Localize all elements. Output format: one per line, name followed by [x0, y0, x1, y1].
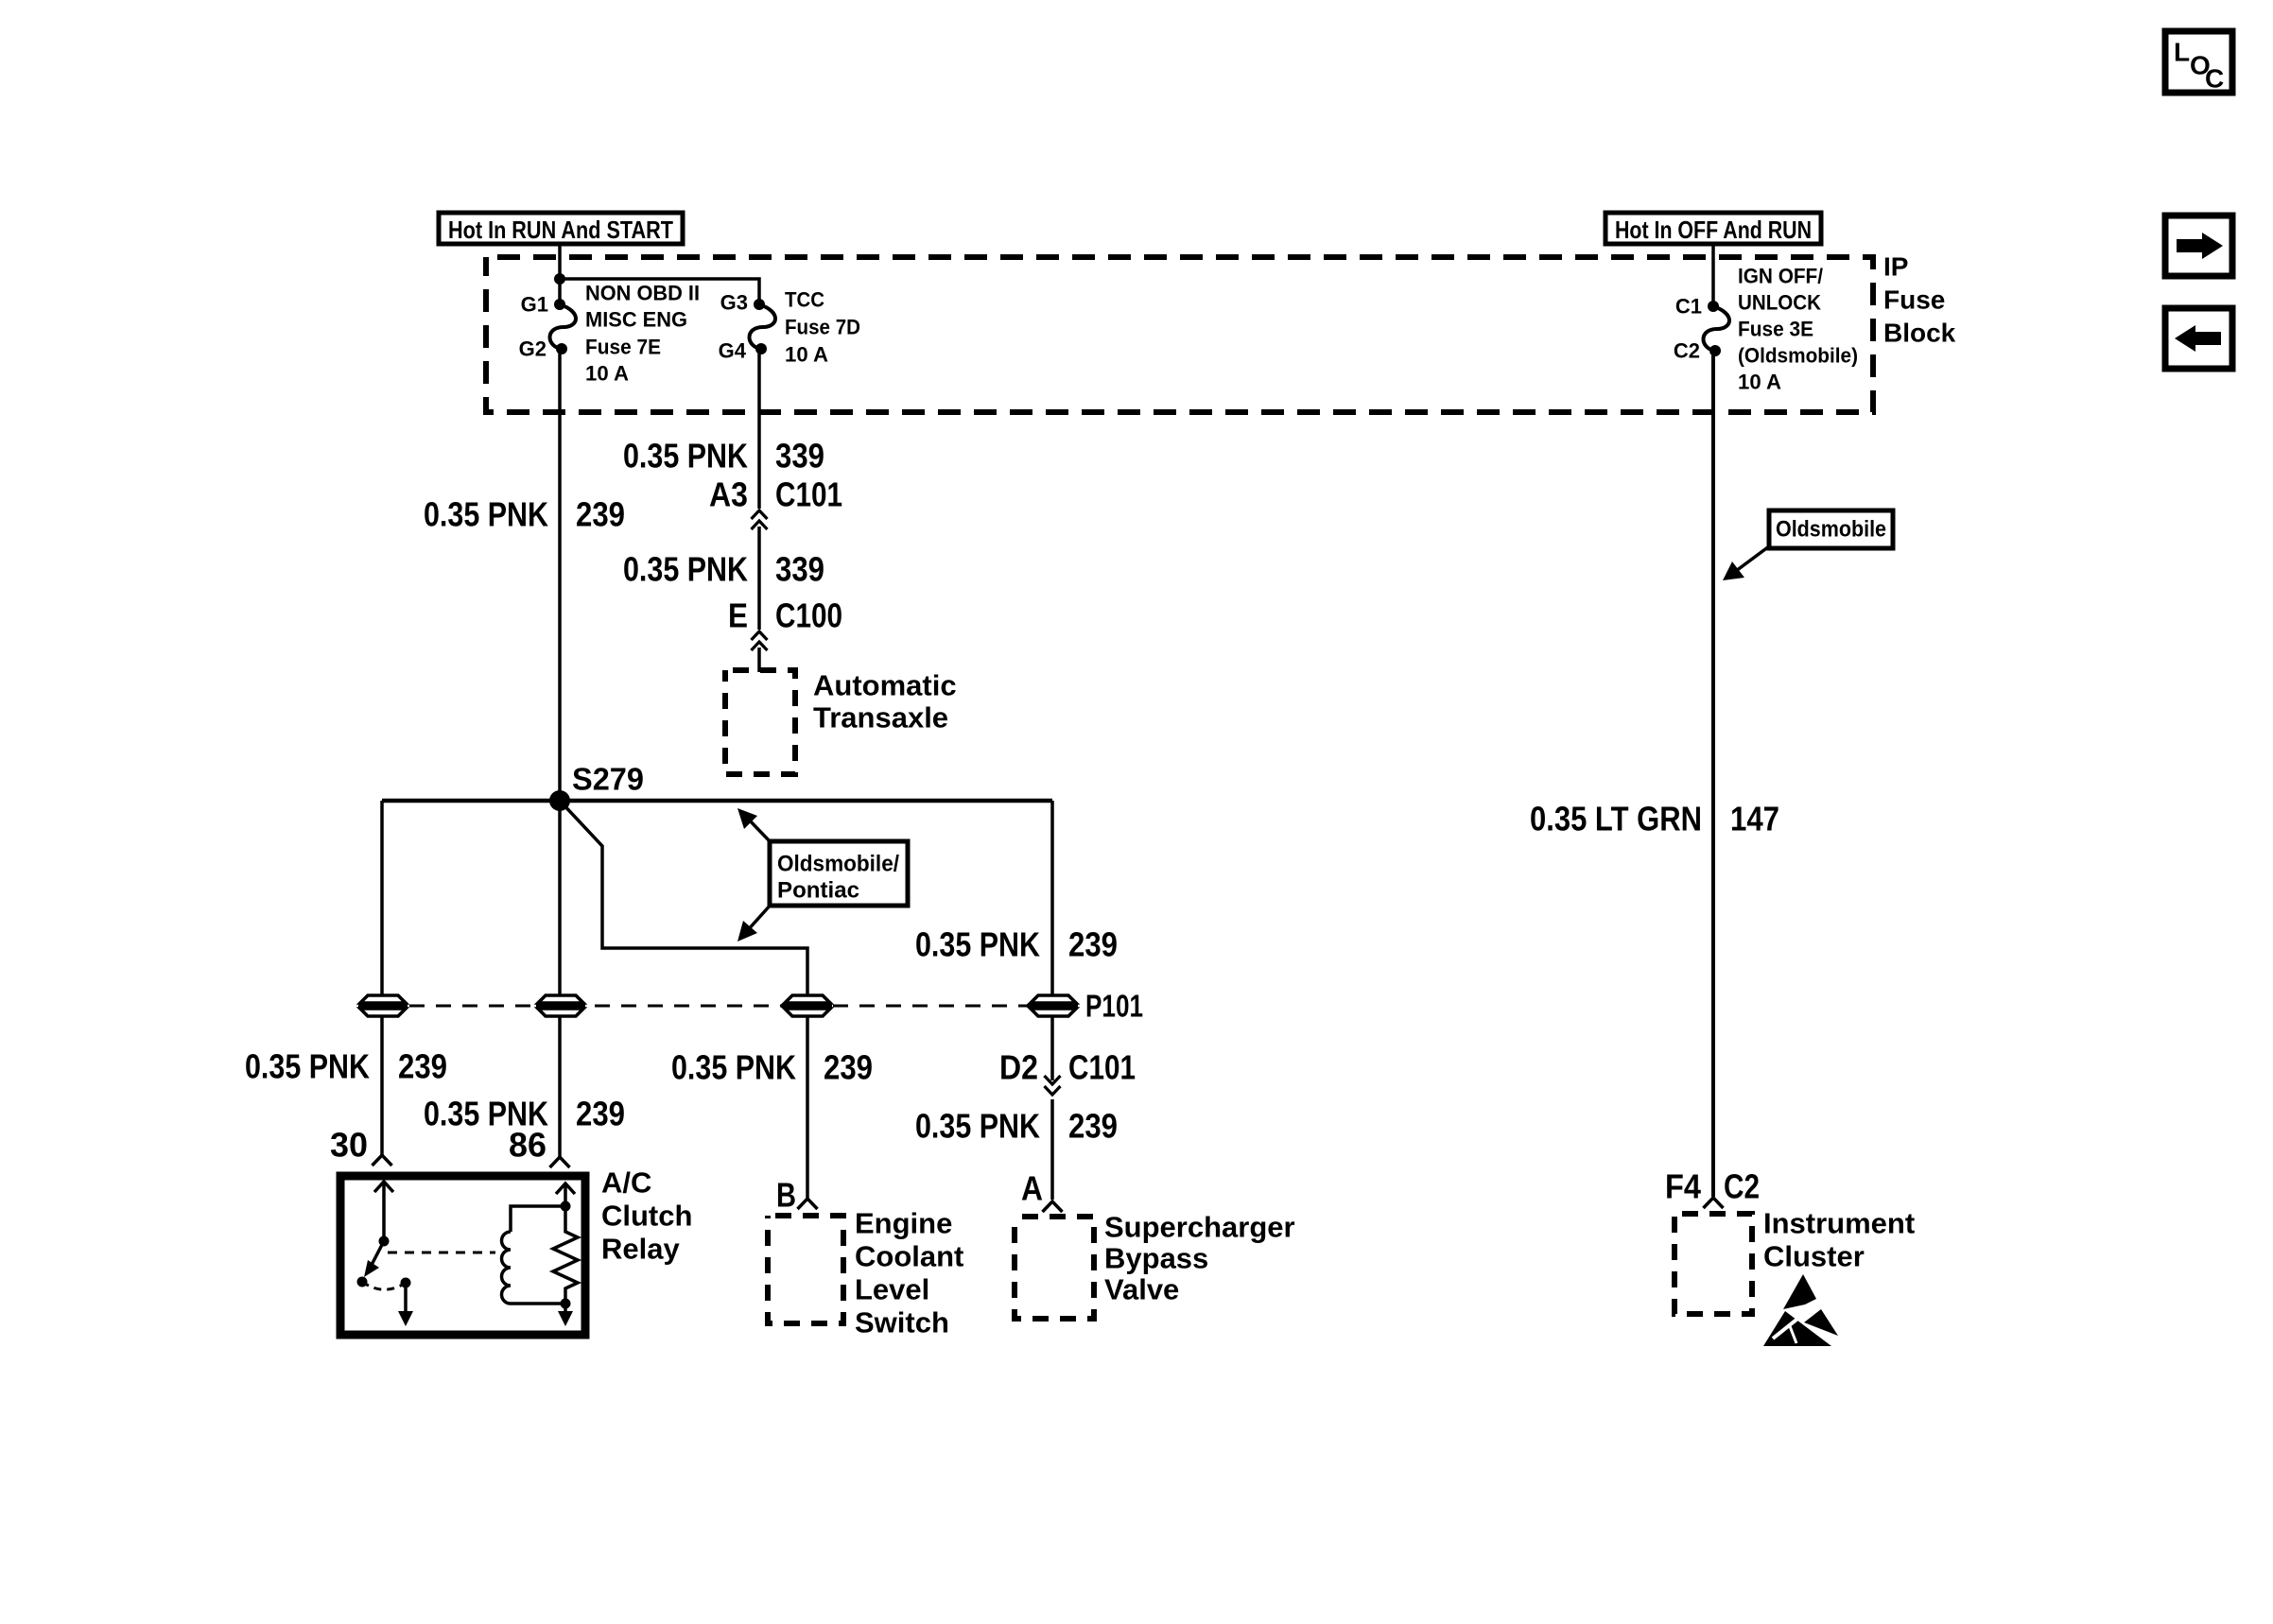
header box: Hot In RUN And START [439, 213, 683, 244]
svg-text:0.35 PNK: 0.35 PNK [915, 925, 1040, 964]
svg-text:Valve: Valve [1104, 1273, 1179, 1306]
svg-text:Fuse 3E: Fuse 3E [1738, 318, 1813, 341]
svg-text:S279: S279 [572, 762, 644, 797]
svg-text:P101: P101 [1085, 989, 1143, 1024]
splice S279 [549, 790, 570, 811]
header box: Hot In OFF And RUN [1605, 213, 1821, 244]
relay output arrow (pin 87) [404, 1283, 408, 1314]
svg-text:0.35 PNK: 0.35 PNK [623, 437, 748, 475]
wire: 0.35 PNK 239 from G2 to S279 [558, 349, 562, 801]
svg-text:Switch: Switch [855, 1306, 949, 1339]
wire: S279 horizontal bus [382, 799, 1052, 803]
svg-text:Bypass: Bypass [1104, 1242, 1208, 1275]
svg-text:30: 30 [330, 1126, 368, 1165]
nav arrow box (right) [2165, 216, 2232, 276]
fuse: NON OBD II MISC ENG Fuse 7E 10A (G1-G2) [550, 304, 577, 349]
relay dashed contact arc [362, 1282, 406, 1289]
svg-text:Clutch: Clutch [601, 1200, 692, 1233]
wire: Hot In OFF And RUN feed [1711, 244, 1715, 306]
svg-text:A/C: A/C [601, 1166, 651, 1200]
svg-text:C: C [2205, 64, 2224, 94]
svg-text:C100: C100 [775, 596, 842, 635]
svg-text:C101: C101 [1068, 1048, 1136, 1087]
svg-text:239: 239 [1068, 925, 1118, 964]
callout arrow to wire [1736, 546, 1769, 571]
svg-text:D2: D2 [999, 1048, 1038, 1087]
svg-text:C101: C101 [775, 475, 842, 514]
IP Fuse Block dashed box [486, 257, 1873, 412]
svg-text:G3: G3 [720, 291, 748, 315]
svg-text:A3: A3 [709, 475, 748, 514]
svg-text:G4: G4 [719, 339, 747, 363]
relay switch armature [372, 1241, 384, 1265]
wire: 0.35 LT GRN 147 from C2 to instrument cluster [1711, 351, 1715, 1197]
wire: 0.35 PNK 339 from C101 to C100 [757, 527, 761, 630]
svg-text:IGN OFF/: IGN OFF/ [1738, 265, 1823, 288]
terminal chevron pin 30 [373, 1155, 392, 1166]
nav arrow box (left) [2165, 308, 2232, 369]
svg-text:Transaxle: Transaxle [813, 701, 948, 734]
wire: branch to TCC fuse [560, 279, 759, 304]
junction node [554, 273, 565, 285]
wire: left drop to relay pin 30 [380, 801, 384, 1155]
svg-text:Engine: Engine [855, 1207, 952, 1240]
svg-text:239: 239 [824, 1048, 873, 1087]
svg-text:Oldsmobile/: Oldsmobile/ [777, 852, 899, 877]
svg-text:Automatic: Automatic [813, 669, 957, 702]
svg-text:Hot In OFF And RUN: Hot In OFF And RUN [1615, 216, 1812, 244]
svg-text:TCC: TCC [785, 288, 824, 312]
ESD sensitivity symbol [1763, 1274, 1838, 1346]
svg-text:339: 339 [775, 437, 824, 475]
svg-text:Pontiac: Pontiac [777, 878, 859, 904]
svg-text:E: E [728, 596, 748, 635]
terminal chevron pin 86 [550, 1157, 570, 1167]
svg-text:Supercharger: Supercharger [1104, 1211, 1295, 1244]
svg-text:0.35 PNK: 0.35 PNK [424, 495, 548, 534]
svg-text:C2: C2 [1674, 339, 1700, 363]
svg-text:Coolant: Coolant [855, 1240, 963, 1273]
svg-text:10 A: 10 A [1738, 371, 1781, 394]
callout arrow up-left [747, 818, 772, 843]
wire: 0.35 PNK 339 from G4 to C101 [757, 349, 761, 509]
component box: Engine Coolant Level Switch [768, 1216, 843, 1323]
svg-text:86: 86 [509, 1126, 547, 1165]
svg-text:F4: F4 [1665, 1167, 1701, 1206]
grommet 1 [358, 995, 408, 1016]
svg-text:Oldsmobile: Oldsmobile [1776, 517, 1886, 543]
wire: into Automatic Transaxle [757, 648, 761, 672]
svg-text:0.35 PNK: 0.35 PNK [671, 1048, 796, 1087]
component box: Supercharger Bypass Valve [1015, 1217, 1094, 1319]
callout box: Oldsmobile [1769, 510, 1893, 548]
wire: jog drop to coolant switch (Oldsmobile/Pontiac variant) [560, 801, 807, 1199]
relay resistor [553, 1206, 578, 1304]
relay coil ground arrow [564, 1304, 567, 1314]
wire: right drop to P101 / supercharger [1050, 801, 1054, 1080]
relay pin 30 internal arrow [382, 1183, 386, 1241]
svg-text:Relay: Relay [601, 1233, 680, 1266]
dashed bulkhead line P101 [383, 1005, 1053, 1008]
grommet 4 (P101) [1029, 995, 1078, 1016]
svg-text:Fuse 7E: Fuse 7E [585, 336, 661, 359]
wire: 0.35 PNK 239 from C101 D2 to supercharger valve [1050, 1099, 1054, 1200]
component box: Instrument Cluster [1674, 1214, 1752, 1314]
svg-text:147: 147 [1730, 800, 1779, 838]
svg-text:UNLOCK: UNLOCK [1738, 291, 1821, 315]
svg-text:10 A: 10 A [785, 343, 828, 367]
relay dashed actuation link [388, 1252, 495, 1254]
svg-text:(Oldsmobile): (Oldsmobile) [1738, 344, 1858, 368]
wire: Hot In RUN And START feed [558, 244, 562, 304]
svg-text:MISC ENG: MISC ENG [585, 308, 687, 332]
svg-text:A: A [1021, 1169, 1043, 1208]
svg-text:239: 239 [1068, 1107, 1118, 1146]
svg-text:C1: C1 [1675, 295, 1702, 319]
svg-text:0.35 PNK: 0.35 PNK [245, 1047, 370, 1086]
svg-text:Instrument: Instrument [1763, 1207, 1915, 1240]
svg-text:Block: Block [1883, 319, 1956, 348]
svg-text:IP: IP [1883, 252, 1908, 282]
svg-text:239: 239 [576, 495, 625, 534]
svg-text:Hot In RUN And START: Hot In RUN And START [448, 216, 673, 244]
svg-text:B: B [776, 1176, 796, 1215]
svg-text:0.35 PNK: 0.35 PNK [623, 550, 748, 589]
svg-text:0.35 LT GRN: 0.35 LT GRN [1530, 800, 1702, 838]
svg-text:239: 239 [576, 1095, 625, 1133]
svg-text:Cluster: Cluster [1763, 1240, 1865, 1273]
svg-text:10 A: 10 A [585, 362, 629, 386]
svg-text:Level: Level [855, 1273, 929, 1306]
fuse: IGN OFF/UNLOCK Fuse 3E (Oldsmobile) 10A (C1-C2) [1704, 306, 1730, 351]
svg-text:339: 339 [775, 550, 824, 589]
callout box: Oldsmobile/Pontiac [770, 841, 908, 906]
svg-text:G1: G1 [521, 293, 548, 317]
callout arrow down-left [747, 904, 772, 931]
fuse: TCC Fuse 7D 10A (G3-G4) [750, 304, 776, 349]
LOC page-locator box [2165, 31, 2232, 93]
relay contact dots [357, 1277, 368, 1287]
relay pin 86 internal arrow [564, 1183, 567, 1206]
svg-text:0.35 PNK: 0.35 PNK [915, 1107, 1040, 1146]
svg-text:NON OBD II: NON OBD II [585, 282, 700, 305]
grommet 2 [536, 995, 585, 1016]
svg-text:Fuse 7D: Fuse 7D [785, 316, 860, 339]
svg-text:239: 239 [398, 1047, 447, 1086]
svg-text:Fuse: Fuse [1883, 285, 1945, 315]
component box: Automatic Transaxle [725, 670, 795, 774]
relay coil [511, 1206, 565, 1232]
grommet 3 [783, 995, 832, 1016]
svg-text:C2: C2 [1724, 1167, 1760, 1206]
wire: middle drop to relay pin 86 [558, 801, 562, 1157]
relay box: A/C Clutch Relay [340, 1176, 585, 1335]
svg-text:L: L [2174, 38, 2190, 67]
svg-text:G2: G2 [519, 337, 547, 361]
